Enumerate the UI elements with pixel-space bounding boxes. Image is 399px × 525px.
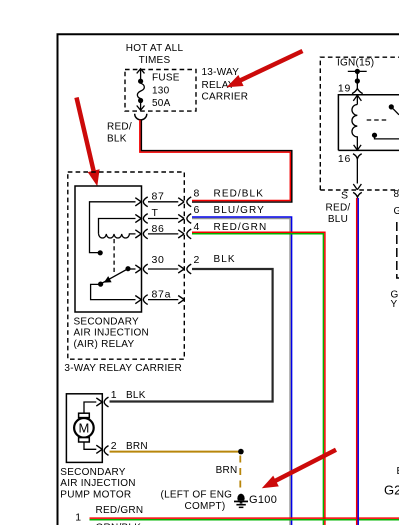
- svg-text:IGN(15): IGN(15): [337, 57, 374, 68]
- fuse 130 (50A) symbol: [137, 69, 145, 110]
- motor internal wires: [84, 402, 96, 449]
- svg-text:6: 6: [194, 204, 201, 216]
- svg-text:HOT AT ALL: HOT AT ALL: [126, 43, 184, 54]
- wire from IGN: [348, 71, 367, 88]
- svg-text:G100: G100: [249, 494, 277, 506]
- motor M symbol: [74, 418, 94, 438]
- motor pin 1 connector: [96, 397, 108, 407]
- carrier pin 8 connector: [178, 197, 191, 207]
- armature arrowhead: [104, 276, 112, 283]
- wire pin87 internal: [90, 202, 136, 253]
- wire pin30 internal: [129, 268, 136, 270]
- fuse carrier dashed box: [125, 70, 196, 112]
- annotation arrow 1: [227, 51, 303, 87]
- svg-text:130: 130: [152, 86, 170, 97]
- svg-text:PUMP MOTOR: PUMP MOTOR: [60, 489, 131, 500]
- carrier pin 6 connector: [178, 214, 191, 224]
- svg-text:13-WAY: 13-WAY: [202, 67, 240, 78]
- svg-text:RED/GRN: RED/GRN: [96, 505, 144, 516]
- wire BRN dashed to ground: [239, 456, 241, 492]
- svg-text:87: 87: [152, 190, 165, 202]
- carrier pin 2 connector: [178, 264, 191, 274]
- svg-text:BLU/GRY: BLU/GRY: [214, 205, 265, 216]
- wire pin 87 to carrier pin 8: [148, 201, 178, 203]
- wire BRN: [110, 451, 241, 453]
- svg-text:BRN: BRN: [216, 465, 238, 476]
- relay switch (cut off): [367, 107, 399, 139]
- wire pin 30 to carrier pin 2: [148, 268, 178, 270]
- svg-text:G: G: [394, 206, 399, 217]
- svg-text:8: 8: [194, 187, 201, 199]
- wire pin 87a stub: [148, 299, 178, 301]
- svg-text:(AIR) RELAY: (AIR) RELAY: [74, 339, 135, 350]
- svg-text:BRN: BRN: [126, 441, 148, 452]
- 13-way carrier dashed box (IGN relay): [320, 57, 399, 190]
- svg-text:CARRIER: CARRIER: [202, 91, 249, 102]
- svg-text:Y: Y: [391, 299, 398, 310]
- relay internal wiring: [90, 202, 136, 300]
- wire RED/GRN bottom: [90, 517, 399, 519]
- pin T connector: [135, 214, 147, 224]
- svg-text:AIR INJECTION: AIR INJECTION: [60, 478, 135, 489]
- svg-text:8: 8: [394, 189, 399, 200]
- svg-text:RED/: RED/: [107, 122, 132, 133]
- wire RED/BLK from fuse to relay pin 8: [141, 120, 291, 202]
- svg-text:4: 4: [194, 221, 201, 233]
- connector under fuse: [135, 114, 147, 120]
- svg-text:1: 1: [111, 389, 118, 401]
- svg-text:86: 86: [152, 223, 165, 235]
- contact 87a dot: [98, 282, 103, 287]
- svg-text:RED/: RED/: [326, 203, 351, 214]
- svg-text:19: 19: [338, 82, 351, 94]
- svg-text:S: S: [341, 189, 349, 201]
- svg-text:87a: 87a: [152, 289, 172, 301]
- svg-text:16: 16: [338, 153, 351, 165]
- contact 30 dot: [125, 266, 130, 271]
- svg-text:G2: G2: [384, 483, 399, 498]
- svg-text:BLU: BLU: [328, 214, 348, 225]
- svg-text:2: 2: [194, 254, 201, 266]
- svg-text:30: 30: [152, 254, 165, 266]
- svg-text:RED/GRN: RED/GRN: [214, 222, 268, 233]
- svg-text:SECONDARY: SECONDARY: [74, 316, 139, 327]
- svg-text:50A: 50A: [152, 98, 171, 109]
- cut dashed box edge (right): [397, 222, 399, 278]
- frame border: [58, 34, 399, 525]
- svg-text:BLK: BLK: [107, 134, 127, 145]
- junction dot: [238, 449, 244, 455]
- ignition relay box: [338, 95, 399, 151]
- pin 30 connector: [135, 264, 147, 274]
- wire BLK to motor: [110, 269, 273, 402]
- svg-text:BLK: BLK: [214, 254, 236, 265]
- wire BLU/GRY: [192, 219, 290, 525]
- svg-text:(LEFT OF ENG: (LEFT OF ENG: [161, 489, 233, 500]
- svg-text:M: M: [78, 421, 89, 436]
- mechanical link dashed: [113, 239, 115, 273]
- 3-way relay carrier dashed box: [68, 172, 185, 359]
- svg-text:FUSE: FUSE: [152, 73, 180, 84]
- carrier pin 4 connector: [178, 229, 191, 239]
- wire RED/GRN: [192, 234, 323, 525]
- relay coil vertical: [352, 95, 361, 150]
- wire pin T to carrier pin 6: [148, 218, 178, 220]
- switch armature: [101, 269, 128, 284]
- pin 19 connector: [352, 88, 363, 93]
- svg-text:BLK: BLK: [126, 390, 146, 401]
- pin 87a connector: [135, 295, 147, 305]
- pin 86 connector: [135, 229, 147, 239]
- svg-text:AIR INJECTION: AIR INJECTION: [74, 327, 149, 338]
- svg-text:T: T: [152, 207, 159, 219]
- svg-text:RED/BLK: RED/BLK: [214, 188, 265, 199]
- svg-text:3-WAY RELAY CARRIER: 3-WAY RELAY CARRIER: [64, 363, 182, 374]
- svg-text:TIMES: TIMES: [139, 55, 171, 66]
- motor pin 2 connector: [96, 445, 108, 455]
- wire pin16 to S: [353, 160, 361, 190]
- svg-text:2: 2: [111, 440, 118, 452]
- wire pin87a internal: [91, 284, 136, 299]
- wire pin 86 to carrier pin 4: [148, 233, 178, 235]
- wire pinT internal: [99, 219, 136, 234]
- annotation arrow 2: [77, 98, 100, 187]
- secondary air injection (AIR) relay box: [75, 186, 142, 312]
- pin S connector: [353, 192, 362, 197]
- annotation arrow 3: [262, 450, 336, 489]
- pin 16 connector: [353, 154, 362, 159]
- ground G100: [234, 494, 248, 509]
- svg-text:COMPT): COMPT): [185, 501, 226, 512]
- carrier pin 87a arrow: [178, 296, 184, 304]
- svg-text:SECONDARY: SECONDARY: [60, 467, 125, 478]
- pump motor box: [66, 394, 102, 463]
- svg-text:1: 1: [75, 512, 82, 524]
- pin 87 connector: [135, 197, 147, 207]
- wire RED/BLU: [356, 198, 358, 525]
- contact 87 dot: [98, 250, 103, 255]
- relay coil: [99, 234, 136, 238]
